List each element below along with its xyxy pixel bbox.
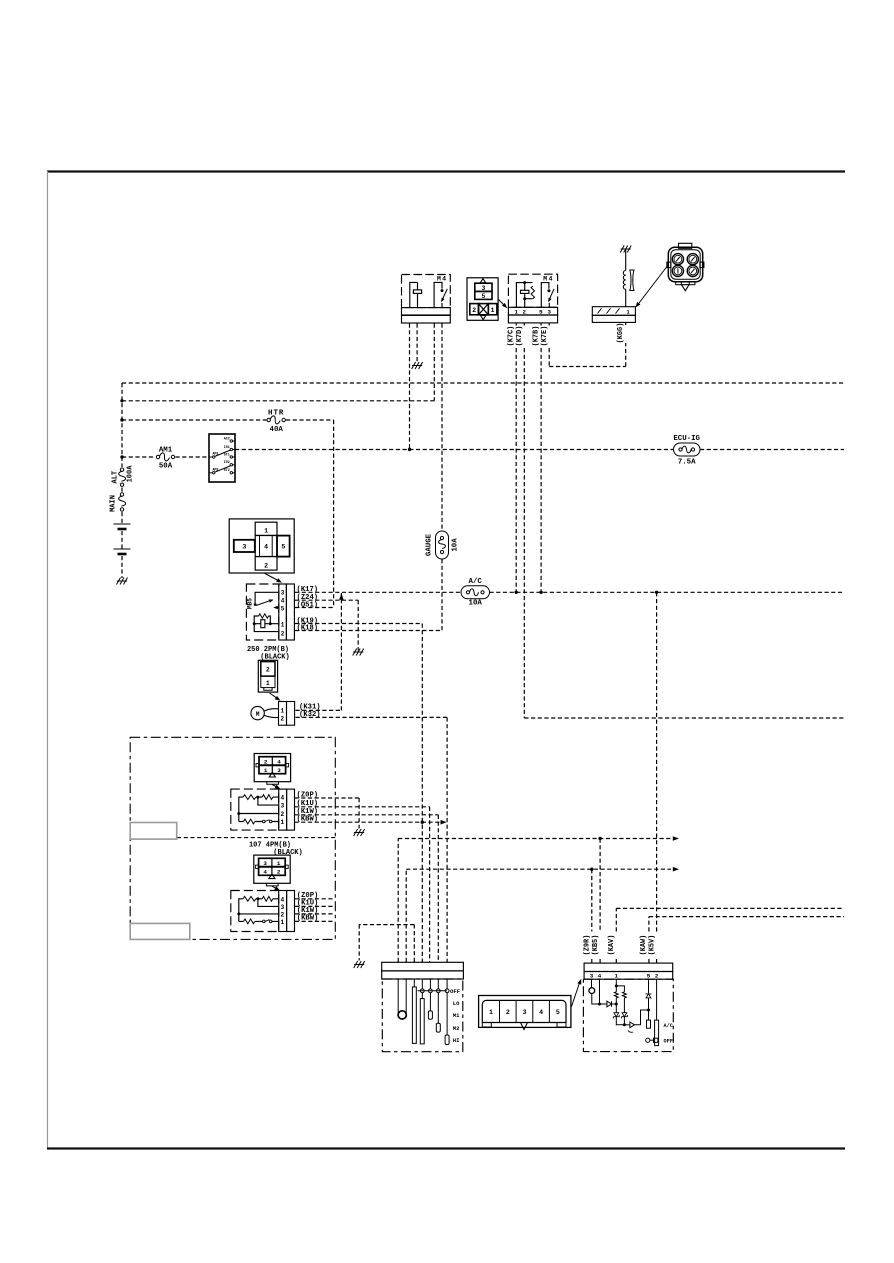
blank label box lower [130,923,190,939]
svg-text:(KBW): (KBW) [297,815,319,823]
wire: (K1W) lower resistor stub [295,913,335,915]
svg-text:1: 1 [264,528,268,535]
svg-text:2: 2 [277,869,281,876]
connector pinout (lower resistor) [254,855,290,886]
relay M4 (left) [402,275,451,324]
svg-text:5: 5 [647,972,651,979]
blower resistor lower [231,891,295,932]
svg-text:2: 2 [281,631,285,638]
wire: HTR line down to (Q51) [333,420,335,608]
wire: M4 relay-1 pin3 up from bus line [433,324,435,401]
svg-text:(KGG): (KGG) [617,323,625,344]
svg-text:100A: 100A [127,465,135,483]
svg-text:1: 1 [281,819,285,826]
blank label box upper [130,823,177,840]
svg-text:3: 3 [523,1009,527,1016]
svg-text:OFF: OFF [664,1039,673,1045]
wire: (K1U) upper resistor to blower switch [295,807,430,962]
wire: (KB5) drop to A/C switch pin4 [599,839,601,963]
svg-text:5: 5 [539,308,543,315]
svg-text:4: 4 [281,795,285,802]
svg-text:3: 3 [277,767,281,774]
svg-text:(K17): (K17) [297,586,319,594]
svg-text:2: 2 [264,562,268,569]
blower motor [251,702,295,726]
option box (blower resistor variants) [130,737,335,939]
svg-text:1: 1 [264,767,268,774]
arrow pinout to A/C switch [572,982,581,1007]
svg-text:M4: M4 [543,276,554,283]
svg-text:(Q51): (Q51) [297,601,319,609]
svg-text:ECU-IG: ECU-IG [673,435,700,443]
ground (noise filter) [620,246,631,253]
svg-text:AM2: AM2 [212,468,218,472]
wire: (K32) motor line [296,717,448,962]
svg-text:1: 1 [514,308,518,315]
svg-text:1: 1 [489,1009,493,1016]
continuation arrow on Z9R line [673,867,679,872]
svg-text:ST2: ST2 [224,469,230,473]
ground (battery) [117,578,128,585]
junction dots [120,399,658,871]
svg-text:(K1U): (K1U) [297,800,319,808]
svg-text:50A: 50A [159,463,173,471]
wire: (K1U) lower resistor stub [295,905,335,907]
svg-text:40A: 40A [270,426,284,434]
svg-text:M: M [256,711,260,718]
wire: blower ILL to (Z9R) line with continuation arrow [406,869,671,962]
wire: M4 relay-1 pin4 / GAUGE fuse / (K18) vertical [441,324,443,631]
svg-text:2: 2 [281,811,285,818]
svg-text:MB5: MB5 [246,598,253,609]
svg-text:A/C: A/C [469,578,483,586]
svg-text:2: 2 [655,972,659,979]
svg-text:1: 1 [281,621,285,628]
svg-text:M4: M4 [437,276,448,283]
svg-text:5: 5 [481,293,485,300]
wire: (K7B) relay M4-2 pin5 down to A/C bus [540,348,542,592]
A/C switch internals [589,979,625,1013]
svg-text:10A: 10A [469,600,483,608]
relay MB5 [246,584,294,640]
wire: battery bus to M4 relay-1 pin3 [122,400,434,402]
ground (M4 relay-1) [412,362,423,369]
fuse GAUGE 10A [436,531,449,559]
svg-text:(KB5): (KB5) [592,935,600,956]
svg-text:3: 3 [281,803,285,810]
svg-text:1: 1 [626,309,630,316]
connector pinout (A/C switch) [479,996,571,1030]
svg-text:ACC: ACC [224,438,230,442]
svg-text:(Z0P): (Z0P) [297,791,319,799]
wire: (K7C) relay M4-2 pin1 down to A/C bus [515,348,517,592]
svg-text:(K7D): (K7D) [516,326,524,347]
wire: (KBW) upper resistor line [295,821,441,823]
fuse ECU-IG 7.5A [674,443,701,456]
relay M4 (heater) [508,274,557,323]
svg-text:4: 4 [264,544,268,551]
wire: (K19) from MB5 pin1 to blower switch [295,624,422,963]
ground (Z0P upper) [354,829,365,836]
svg-text:2: 2 [523,308,527,315]
svg-text:3: 3 [242,544,246,551]
svg-text:1: 1 [615,972,619,979]
round 4-pin connector [667,243,704,290]
arrow connector to relay [498,299,505,306]
wire: blower switch ground line [359,925,414,962]
svg-text:M2: M2 [453,1025,460,1032]
svg-text:1: 1 [281,919,285,926]
svg-text:4: 4 [263,869,267,876]
svg-text:(KBW): (KBW) [297,915,319,923]
svg-text:2: 2 [264,758,268,765]
svg-text:(Z9R): (Z9R) [584,935,592,956]
svg-text:HTR: HTR [268,410,284,418]
wire: (K31) motor to K17 junction [296,593,342,710]
connector pinout 2-pin [258,660,277,692]
svg-text:2: 2 [281,911,285,918]
wire: (Z0P) lower resistor stub [295,898,335,900]
svg-text:(KAW): (KAW) [640,935,648,956]
svg-text:(K7B): (K7B) [533,326,541,347]
wire: M4 relay-1 pin2 to ground [416,324,418,362]
fuse HTR 40A [267,415,285,424]
svg-text:2: 2 [280,716,284,723]
wire: (Z0P) upper resistor to ground [295,798,360,829]
svg-text:3: 3 [590,972,594,979]
fuse AM1 50A [156,452,174,461]
svg-text:1: 1 [277,860,281,867]
wire: battery bus B+ horizontal top [122,382,844,384]
blower switch connector bar [382,962,464,1051]
wire: (KAW) A/C switch pin5 up and right [649,917,844,963]
wire: AM1 fuse to ignition switch [122,456,209,458]
wire: left vertical battery bus [121,383,123,578]
junction arrow (K31 into K17 line) [339,594,344,600]
wire: (K1W) upper resistor to blower switch [295,815,439,962]
wire: (Z9R) drop to A/C switch pin3 [591,869,593,962]
svg-text:MAIN: MAIN [110,495,118,512]
wire: (Z24) from MB5 pin4 to ground [295,600,358,650]
svg-text:3: 3 [263,860,267,867]
blower resistor upper [231,789,295,830]
svg-text:4: 4 [277,758,281,765]
svg-text:1: 1 [266,680,270,687]
blower switch internals [398,979,449,1045]
svg-text:AM1: AM1 [159,447,173,455]
svg-text:GAUGE: GAUGE [426,533,434,556]
svg-text:7.5A: 7.5A [678,459,696,467]
arrow to motor strip [270,693,279,699]
svg-text:10A: 10A [452,538,460,552]
wire: IG1 line from ignition switch (through ECU-IG fuse) [235,449,844,451]
svg-text:4: 4 [281,896,285,903]
wire labels K17 Z24 Q51 K19 K18 [297,586,319,632]
noise filter [623,249,634,307]
connector pinout 5-pin with X [467,278,498,321]
A/C switch connector bar [583,963,673,1052]
svg-text:(K7C): (K7C) [508,326,516,347]
wire: (KAV) A/C switch pin1 up and right [616,908,844,962]
arrow pinout to MB5 [264,573,280,582]
svg-text:AM1: AM1 [212,453,218,457]
page frame [47,170,845,172]
arrow round connector to bar [638,265,669,306]
svg-text:ALT: ALT [112,471,120,484]
svg-text:3: 3 [281,904,285,911]
wire: (K18) from MB5 pin2 [295,630,442,632]
wire: (K5V) from A/C bus to A/C switch pin2 [656,592,658,962]
svg-text:2: 2 [472,307,476,314]
svg-text:4: 4 [281,597,285,604]
svg-text:IG2: IG2 [224,461,230,465]
svg-text:5: 5 [281,606,285,613]
svg-text:IG1: IG1 [224,446,230,450]
svg-text:5: 5 [556,1009,560,1016]
wire: (KBW) lower resistor stub [295,920,335,922]
connector pinout (upper resistor) [254,754,290,785]
svg-text:HI: HI [453,1037,460,1044]
wire: (K7E) relay M4-2 pin3 to noise filter (KGG) [549,343,626,367]
svg-text:1: 1 [491,307,495,314]
wire: blower OFF contact to (KB5) line with continuation arrow [398,839,671,963]
svg-text:M1: M1 [453,1012,460,1019]
svg-text:(KAV): (KAV) [608,935,616,956]
junction arrow (KBW into K32 line) [441,820,447,825]
fusible link MAIN [118,493,127,511]
svg-text:5: 5 [281,544,285,551]
svg-text:(K5V): (K5V) [648,935,656,956]
svg-text:OFF: OFF [450,988,461,995]
svg-text:(K18): (K18) [297,624,319,632]
svg-text:4: 4 [539,1009,543,1016]
wire: M4 relay-1 pin1 down to IG1 line [409,324,411,450]
svg-text:LO: LO [453,1000,460,1007]
connector bar (KGG) [592,307,635,323]
svg-text:3: 3 [548,308,552,315]
svg-text:4: 4 [598,972,602,979]
wire: HTR fuse feed line [122,419,334,421]
battery [114,524,131,554]
fuse A/C 10A [461,586,490,599]
svg-text:2: 2 [266,667,270,674]
svg-text:1: 1 [280,708,284,715]
svg-text:3: 3 [481,285,485,292]
svg-text:ST1: ST1 [224,453,230,457]
ground (Z24) [353,649,364,656]
svg-text:A/C: A/C [664,1023,673,1029]
continuation arrow on KB5 line [673,836,679,841]
svg-text:3: 3 [281,590,285,597]
wire: KGG stub below bar [625,323,627,326]
fusible link ALT 100A [118,468,127,486]
wire: (Q51) from MB5 pin5 [295,607,334,609]
svg-text:(K32): (K32) [299,711,321,719]
ground (blower switch) [354,961,365,968]
wire: (K17) A/C bus from relay MB5 pin3 [295,591,844,593]
svg-text:2: 2 [506,1009,510,1016]
wire: M4 relay-1 pins short stubs [516,324,549,326]
wire: (K7D) relay M4-2 pin2 down and right [524,348,844,718]
ignition switch [209,434,235,482]
svg-text:(K7E): (K7E) [541,326,549,347]
connector pinout (MB5 relay) [229,519,294,573]
